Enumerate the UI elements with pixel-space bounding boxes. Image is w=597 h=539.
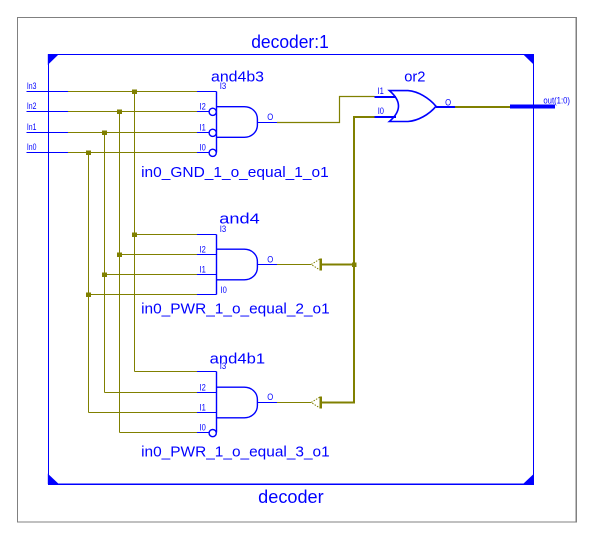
svg-text:In0: In0 [27,142,37,152]
U3 bubble I0 [209,430,216,437]
net U3.O thick wire to trunk corner [322,117,375,403]
svg-text:and4b1: and4b1 [210,350,265,367]
net in2 corner to U3.I0 [120,432,198,434]
junction in0 [86,150,91,155]
out port bus [510,105,555,109]
sheet corner fold top-right [523,54,534,65]
net in2 horizontal [68,111,197,113]
svg-text:decoder: decoder [258,487,324,507]
net in1 horizontal [68,132,197,134]
junction in1 [102,130,107,135]
net in2 to U2.I2 [120,254,198,256]
net U2.O thick wire to trunk [322,264,355,266]
U2 output stub [258,264,278,266]
net in3 horizontal [68,91,197,93]
svg-text:I1: I1 [200,265,206,275]
U1 and4b3 body [217,92,258,153]
svg-text:I3: I3 [220,224,227,234]
port pin In3 [27,91,69,93]
sheet corner fold bottom-left [48,474,59,485]
junction trunk [352,262,356,266]
net arrow U2 [311,259,319,270]
svg-text:O: O [267,392,273,402]
U3 pin stub I3 [197,371,217,373]
svg-text:I1: I1 [200,123,206,133]
U2 and4 body [217,235,258,295]
svg-text:I0: I0 [200,423,206,433]
svg-text:in0_PWR_1_o_equal_2_o1: in0_PWR_1_o_equal_2_o1 [141,300,330,317]
svg-text:I2: I2 [200,383,206,393]
svg-text:I0: I0 [378,106,384,116]
U3 pin stub I0 [197,432,209,434]
net U1.O to or2.I1 [277,97,375,123]
U2 pin stub I1 [197,274,217,276]
svg-text:decoder:1: decoder:1 [251,32,329,52]
net in3 to U2.I3 [135,234,198,236]
U1 pin stub I1 [197,132,209,134]
svg-text:I2: I2 [200,245,206,255]
U2 pin stub I2 [197,254,217,256]
sheet corner fold top-left [48,54,59,65]
U3 and4b1 body [217,372,258,433]
svg-text:O: O [267,255,273,265]
net arrow bar U2 [320,259,322,271]
junction U2.I2 [117,252,122,256]
net in1 corner to U3.I2 [105,392,198,394]
U4 or2 body [389,91,436,122]
net in3 vertical trunk [134,92,136,372]
svg-text:I1: I1 [200,403,206,413]
svg-text:In3: In3 [27,81,37,91]
U4 output stub [436,106,455,108]
junction in3 [132,89,137,94]
svg-text:I3: I3 [220,361,227,371]
port pin In2 [27,111,69,113]
svg-text:O: O [445,97,451,107]
U4 pin stub I1 [375,96,397,98]
svg-text:In1: In1 [27,122,37,132]
sheet corner fold bottom-right [523,474,534,485]
svg-text:I0: I0 [200,143,206,153]
port pin In1 [27,132,69,134]
junction in2 [117,109,122,114]
junction U2.I0 [86,292,91,297]
port pin In0 [27,152,69,154]
net in0 corner to U3.I1 [89,412,198,414]
net arrow U3 [311,397,319,408]
net U4.O to out port [455,106,510,108]
U3 pin stub I2 [197,392,217,394]
net in0 to U2.I0 [89,294,198,296]
svg-text:In2: In2 [27,101,37,111]
net in2 vertical trunk [119,112,121,433]
svg-text:O: O [267,112,273,122]
U1 bubble I2 [209,108,216,115]
U4 pin stub I0 [375,116,397,118]
U1 bubble I1 [209,129,216,136]
U3 output stub [258,402,278,404]
junction U2.I1 [102,272,107,277]
svg-text:or2: or2 [404,69,425,86]
net arrow bar U3 [320,397,322,409]
U2 pin stub I0 [197,294,217,296]
U1 pin stub I0 [197,152,209,154]
net in3 corner to U3.I3 [135,371,198,373]
U1 pin stub I2 [197,111,209,113]
svg-text:I2: I2 [200,102,206,112]
svg-text:I1: I1 [378,86,384,96]
U1 pin stub I3 [197,91,217,93]
svg-text:I0: I0 [221,285,227,295]
net U2.O thin wire [277,264,311,266]
net in1 to U2.I1 [105,274,198,276]
svg-text:out(1:0): out(1:0) [543,96,570,106]
junction U2.I3 [132,232,137,237]
svg-text:I3: I3 [220,81,227,91]
net in0 horizontal [68,152,197,154]
U2 pin stub I3 [197,234,217,236]
net U3.O thin wire [277,402,311,404]
net in0 vertical trunk [88,153,90,413]
U1 bubble I0 [209,149,216,156]
svg-text:in0_PWR_1_o_equal_3_o1: in0_PWR_1_o_equal_3_o1 [141,443,330,460]
svg-text:in0_GND_1_o_equal_1_o1: in0_GND_1_o_equal_1_o1 [141,164,329,181]
sheet boundary box (decoder) [49,55,534,485]
net in1 vertical trunk [104,133,106,393]
U3 pin stub I1 [197,412,217,414]
U1 output stub [258,122,278,124]
